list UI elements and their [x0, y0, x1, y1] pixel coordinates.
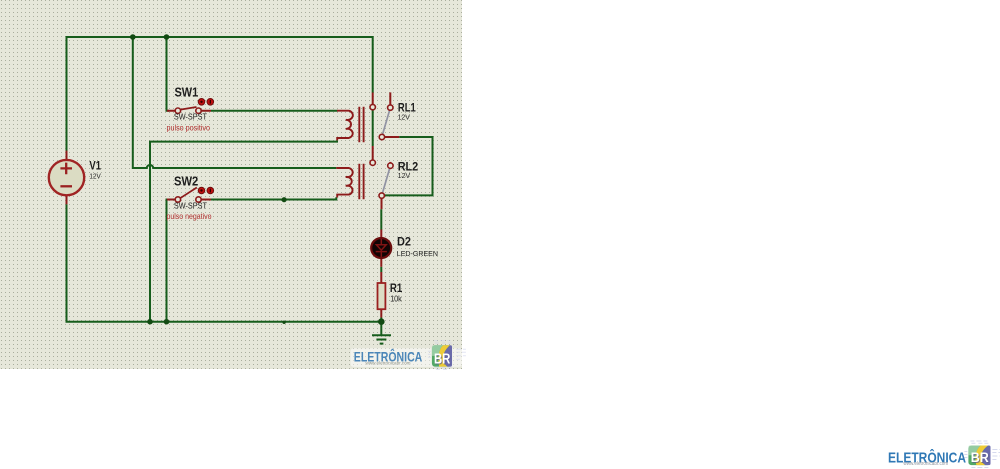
- svg-text:SW2: SW2: [174, 174, 198, 189]
- svg-text:www.eletronicabr.com: www.eletronicabr.com: [366, 361, 411, 366]
- svg-text:pulso negativo: pulso negativo: [167, 211, 212, 221]
- svg-text:D2: D2: [397, 234, 411, 248]
- svg-text:SW-SPST: SW-SPST: [174, 113, 207, 122]
- svg-text:V1: V1: [89, 161, 101, 173]
- svg-text:SW-SPST: SW-SPST: [174, 201, 207, 210]
- svg-text:RL2: RL2: [398, 159, 419, 173]
- svg-text:SW1: SW1: [175, 85, 199, 100]
- svg-text:RL1: RL1: [398, 101, 416, 115]
- svg-text:12V: 12V: [398, 114, 411, 121]
- svg-text:R1: R1: [390, 281, 403, 295]
- svg-text:12V: 12V: [89, 173, 101, 180]
- svg-text:10k: 10k: [390, 294, 402, 303]
- svg-text:12V: 12V: [398, 173, 411, 180]
- svg-text:LED-GREEN: LED-GREEN: [397, 249, 438, 258]
- svg-text:pulso positivo: pulso positivo: [167, 122, 211, 132]
- svg-text:www.eletronicabr.com: www.eletronicabr.com: [903, 461, 948, 467]
